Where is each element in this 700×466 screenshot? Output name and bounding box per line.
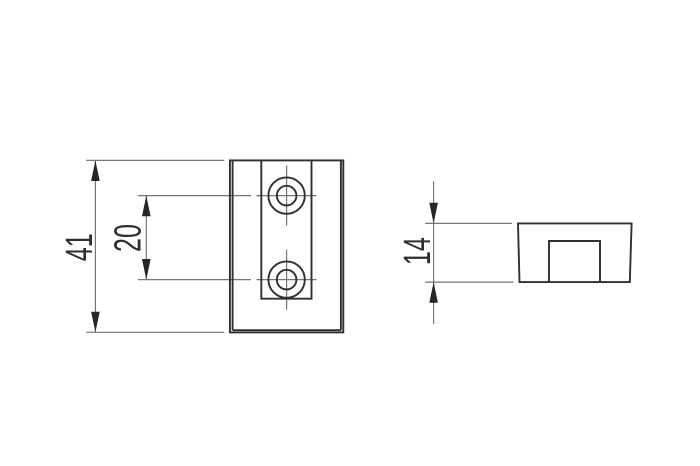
svg-text:14: 14 — [396, 237, 438, 265]
svg-text:41: 41 — [58, 233, 100, 261]
svg-text:20: 20 — [106, 224, 148, 252]
